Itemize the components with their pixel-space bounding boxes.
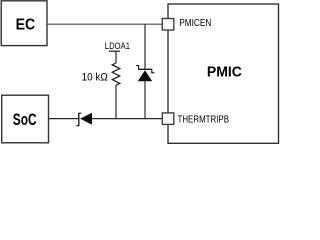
svg-text:EC: EC <box>16 17 36 34</box>
resistor 10 kOhm <box>112 63 120 85</box>
svg-text:THERMTRIPB: THERMTRIPB <box>178 115 230 126</box>
SoC block <box>2 95 49 143</box>
PMIC block <box>168 4 279 143</box>
svg-text:PMICEN: PMICEN <box>179 18 211 29</box>
wire D1 anode down to THERMTRIPB net <box>144 81 146 119</box>
wire resistor bottom to THERMTRIPB net <box>115 85 117 119</box>
LDOA1 rail stub <box>109 51 120 63</box>
schottky diode D2 (horizontal, anode right, cathode left) <box>76 113 92 126</box>
wire EC to PMICEN pin <box>47 23 162 25</box>
svg-text:PMIC: PMIC <box>207 63 242 80</box>
svg-text:SoC: SoC <box>13 110 37 129</box>
EC block <box>1 1 47 46</box>
wire SoC to D2 cathode <box>49 118 79 120</box>
schottky diode D1 (vertical, anode bottom, cathode top) <box>136 66 154 82</box>
wire branch down from PMICEN net to D1 cathode <box>144 24 146 69</box>
svg-text:LDOA1: LDOA1 <box>105 41 130 51</box>
pin PMICEN (square) <box>162 19 174 31</box>
wire D2 anode to THERMTRIPB pin <box>92 118 162 120</box>
pin THERMTRIPB (square) <box>162 113 174 125</box>
svg-text:10 kΩ: 10 kΩ <box>82 72 108 84</box>
